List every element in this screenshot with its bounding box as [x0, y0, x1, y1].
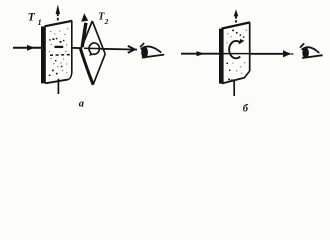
exit ray tail past arrowhead (panel b)	[291, 53, 294, 55]
svg-text:а: а	[79, 98, 84, 109]
eye (panel a) lower lid	[142, 55, 164, 58]
svg-text:1: 1	[38, 18, 42, 27]
exit ray (panel b)	[250, 53, 290, 55]
polarizer P top edge (panel b)	[222, 22, 251, 28]
eye (panel a) upper lash tick	[140, 43, 144, 47]
speckle dots inside P (panel b)	[226, 30, 247, 81]
polarizer T2 top-right edge	[92, 21, 105, 54]
P axis line below plate (panel b)	[233, 81, 235, 97]
polarizer P right edge (panel b)	[249, 22, 251, 71]
svg-text:T: T	[28, 12, 36, 24]
polarizer T1 bottom edge	[45, 80, 67, 84]
exit ray (panel a)	[101, 48, 137, 51]
eye (panel b) upper lid	[302, 47, 320, 53]
T2 tilted axis arrow shaft	[82, 23, 86, 47]
exit ray arrowhead (panel b)	[283, 50, 291, 57]
eye (panel b) lower lid	[302, 55, 322, 58]
paper background	[0, 0, 330, 120]
speckle dots inside T1	[49, 28, 68, 76]
polarizer T1 top edge	[45, 21, 73, 27]
T1 axis line below plate	[57, 79, 59, 94]
polarizer P left edge bar (panel b)	[219, 29, 224, 84]
P transmission axis dashed shaft (panel b)	[235, 16, 237, 23]
polarizer T2 top-left edge	[81, 21, 92, 48]
rotation G loop inside P (panel b)	[229, 41, 240, 58]
speckle dashes inside T1	[50, 54, 70, 57]
polarizer T2 bottom-left edge (thick)	[80, 49, 93, 85]
rotation G loop arrowhead (panel b)	[239, 39, 245, 45]
svg-text:б: б	[243, 103, 249, 114]
polarizer P bottom edge (panel b)	[222, 78, 245, 84]
incoming ray (panel b)	[181, 53, 219, 55]
ray dash inside T1	[55, 46, 64, 48]
polarizer T2 bottom-right edge	[93, 54, 105, 85]
exit ray chevron arrowhead (panel a)	[128, 46, 135, 53]
incoming ray (panel a)	[13, 47, 42, 49]
T1 transmission axis arrowhead (above plate)	[56, 5, 61, 15]
eye (panel b) pupil	[302, 47, 309, 58]
ray between T1 and T2	[72, 47, 82, 49]
rotation loop arrowhead inside T2	[89, 52, 93, 56]
polarizer T1 bottom-right corner	[67, 73, 72, 81]
svg-text:2: 2	[104, 17, 109, 26]
incoming ray arrowhead (panel a)	[27, 45, 35, 51]
rotation loop arrow inside T2	[89, 43, 99, 54]
eye (panel a) upper lid	[141, 46, 162, 52]
eye (panel a) pupil	[141, 47, 148, 59]
polarizer P bottom-right chamfer (panel b)	[244, 71, 249, 78]
T1 transmission axis dashed shaft	[57, 14, 59, 22]
T2 tilted axis arrowhead	[81, 13, 88, 22]
polarizer T1 left edge bar	[41, 26, 46, 83]
P transmission axis arrowhead above plate (panel b)	[234, 9, 239, 16]
ray through P (panel b)	[224, 53, 251, 55]
eye (panel b) upper lash tick	[300, 43, 304, 47]
incoming ray arrowhead (panel b)	[197, 51, 205, 56]
polarizer T1 right edge	[71, 21, 73, 74]
ray through T2	[84, 47, 101, 49]
